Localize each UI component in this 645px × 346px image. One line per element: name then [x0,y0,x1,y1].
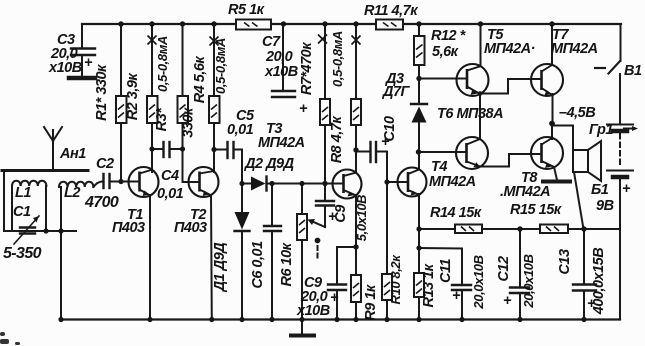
svg-text:С6 0,01: С6 0,01 [250,241,266,289]
svg-text:R2 3,9к: R2 3,9к [125,73,141,121]
svg-text:.МП42А: .МП42А [500,184,550,200]
svg-text:R12 *: R12 * [431,28,467,44]
svg-text:R1* 330к: R1* 330к [94,64,110,121]
svg-text:R15 15к: R15 15к [510,202,562,218]
svg-text:С12: С12 [496,256,512,282]
svg-text:Б1: Б1 [591,182,609,198]
svg-text:Д1 Д9Д: Д1 Д9Д [212,242,228,294]
svg-text:R14 15к: R14 15к [430,205,482,221]
svg-text:МП42А: МП42А [258,135,305,151]
svg-text:20,0х10В: 20,0х10В [521,254,536,308]
svg-text:Гр1: Гр1 [589,122,613,138]
svg-text:20,0х10В: 20,0х10В [471,255,486,309]
svg-text:R4 5,6к: R4 5,6к [192,56,208,104]
svg-text:R13 1к: R13 1к [421,263,437,307]
svg-text:С2: С2 [96,156,114,172]
svg-text:0,5-0,8мА: 0,5-0,8мА [330,31,345,87]
svg-text:R6 10к: R6 10к [279,242,295,286]
svg-text:С11: С11 [438,259,454,283]
svg-text:С10: С10 [382,116,398,142]
svg-text:х10В: х10В [48,60,82,76]
svg-text:х10В: х10В [264,64,298,80]
svg-text:+: + [330,290,339,306]
svg-text:х10В: х10В [296,303,330,319]
svg-text:20,0: 20,0 [265,49,293,65]
svg-text:0,5-0,8мА: 0,5-0,8мА [213,38,228,94]
svg-text:5,0х10В: 5,0х10В [354,195,369,241]
svg-text:R11 4,7к: R11 4,7к [364,3,418,19]
svg-text:Д2 Д9Д: Д2 Д9Д [243,156,295,172]
svg-text:L2: L2 [64,185,80,201]
svg-text:Т6 МП38А: Т6 МП38А [437,106,503,122]
svg-text:4700: 4700 [84,194,119,211]
svg-text:+: + [503,293,512,309]
svg-text:R5 1к: R5 1к [228,2,265,18]
svg-text:В1: В1 [624,63,642,79]
svg-text:L1: L1 [15,185,31,201]
svg-text:П403: П403 [174,220,207,236]
svg-text:0,01: 0,01 [227,122,254,138]
svg-text:С7: С7 [262,34,281,50]
svg-text:+: + [84,55,93,71]
svg-text:Т4: Т4 [431,159,447,175]
svg-text:МП42А·: МП42А· [484,41,535,57]
svg-text:С9: С9 [333,205,349,223]
svg-text:9В: 9В [596,198,614,214]
svg-text:+: + [452,288,461,304]
svg-text:400,0х15В: 400,0х15В [591,248,607,315]
svg-text:С1: С1 [13,204,31,220]
svg-text:П403: П403 [112,220,145,236]
svg-text:R7*470к: R7*470к [299,42,315,95]
svg-text:+: + [299,101,308,117]
svg-text:R8 4,7к: R8 4,7к [329,116,345,164]
svg-text:Д7Г: Д7Г [381,84,411,100]
svg-text:5-350: 5-350 [3,245,42,262]
svg-text:330к: 330к [181,107,197,138]
svg-text:R10 8,2к: R10 8,2к [388,254,403,305]
svg-text:Ан1: Ан1 [59,146,86,162]
svg-text:0,01: 0,01 [157,186,184,202]
svg-text:С4: С4 [161,168,179,184]
svg-text:+: + [622,181,631,197]
svg-text:0,5-0,8мА: 0,5-0,8мА [155,36,170,92]
svg-text:МП42А: МП42А [551,41,598,57]
svg-text:–4,5В: –4,5В [559,105,595,121]
svg-text:5,6к: 5,6к [432,44,459,60]
svg-text:R9 1к: R9 1к [363,284,379,321]
svg-text:С13: С13 [557,249,573,275]
svg-text:R3*: R3* [154,107,170,132]
svg-text:МП42А: МП42А [429,174,476,190]
